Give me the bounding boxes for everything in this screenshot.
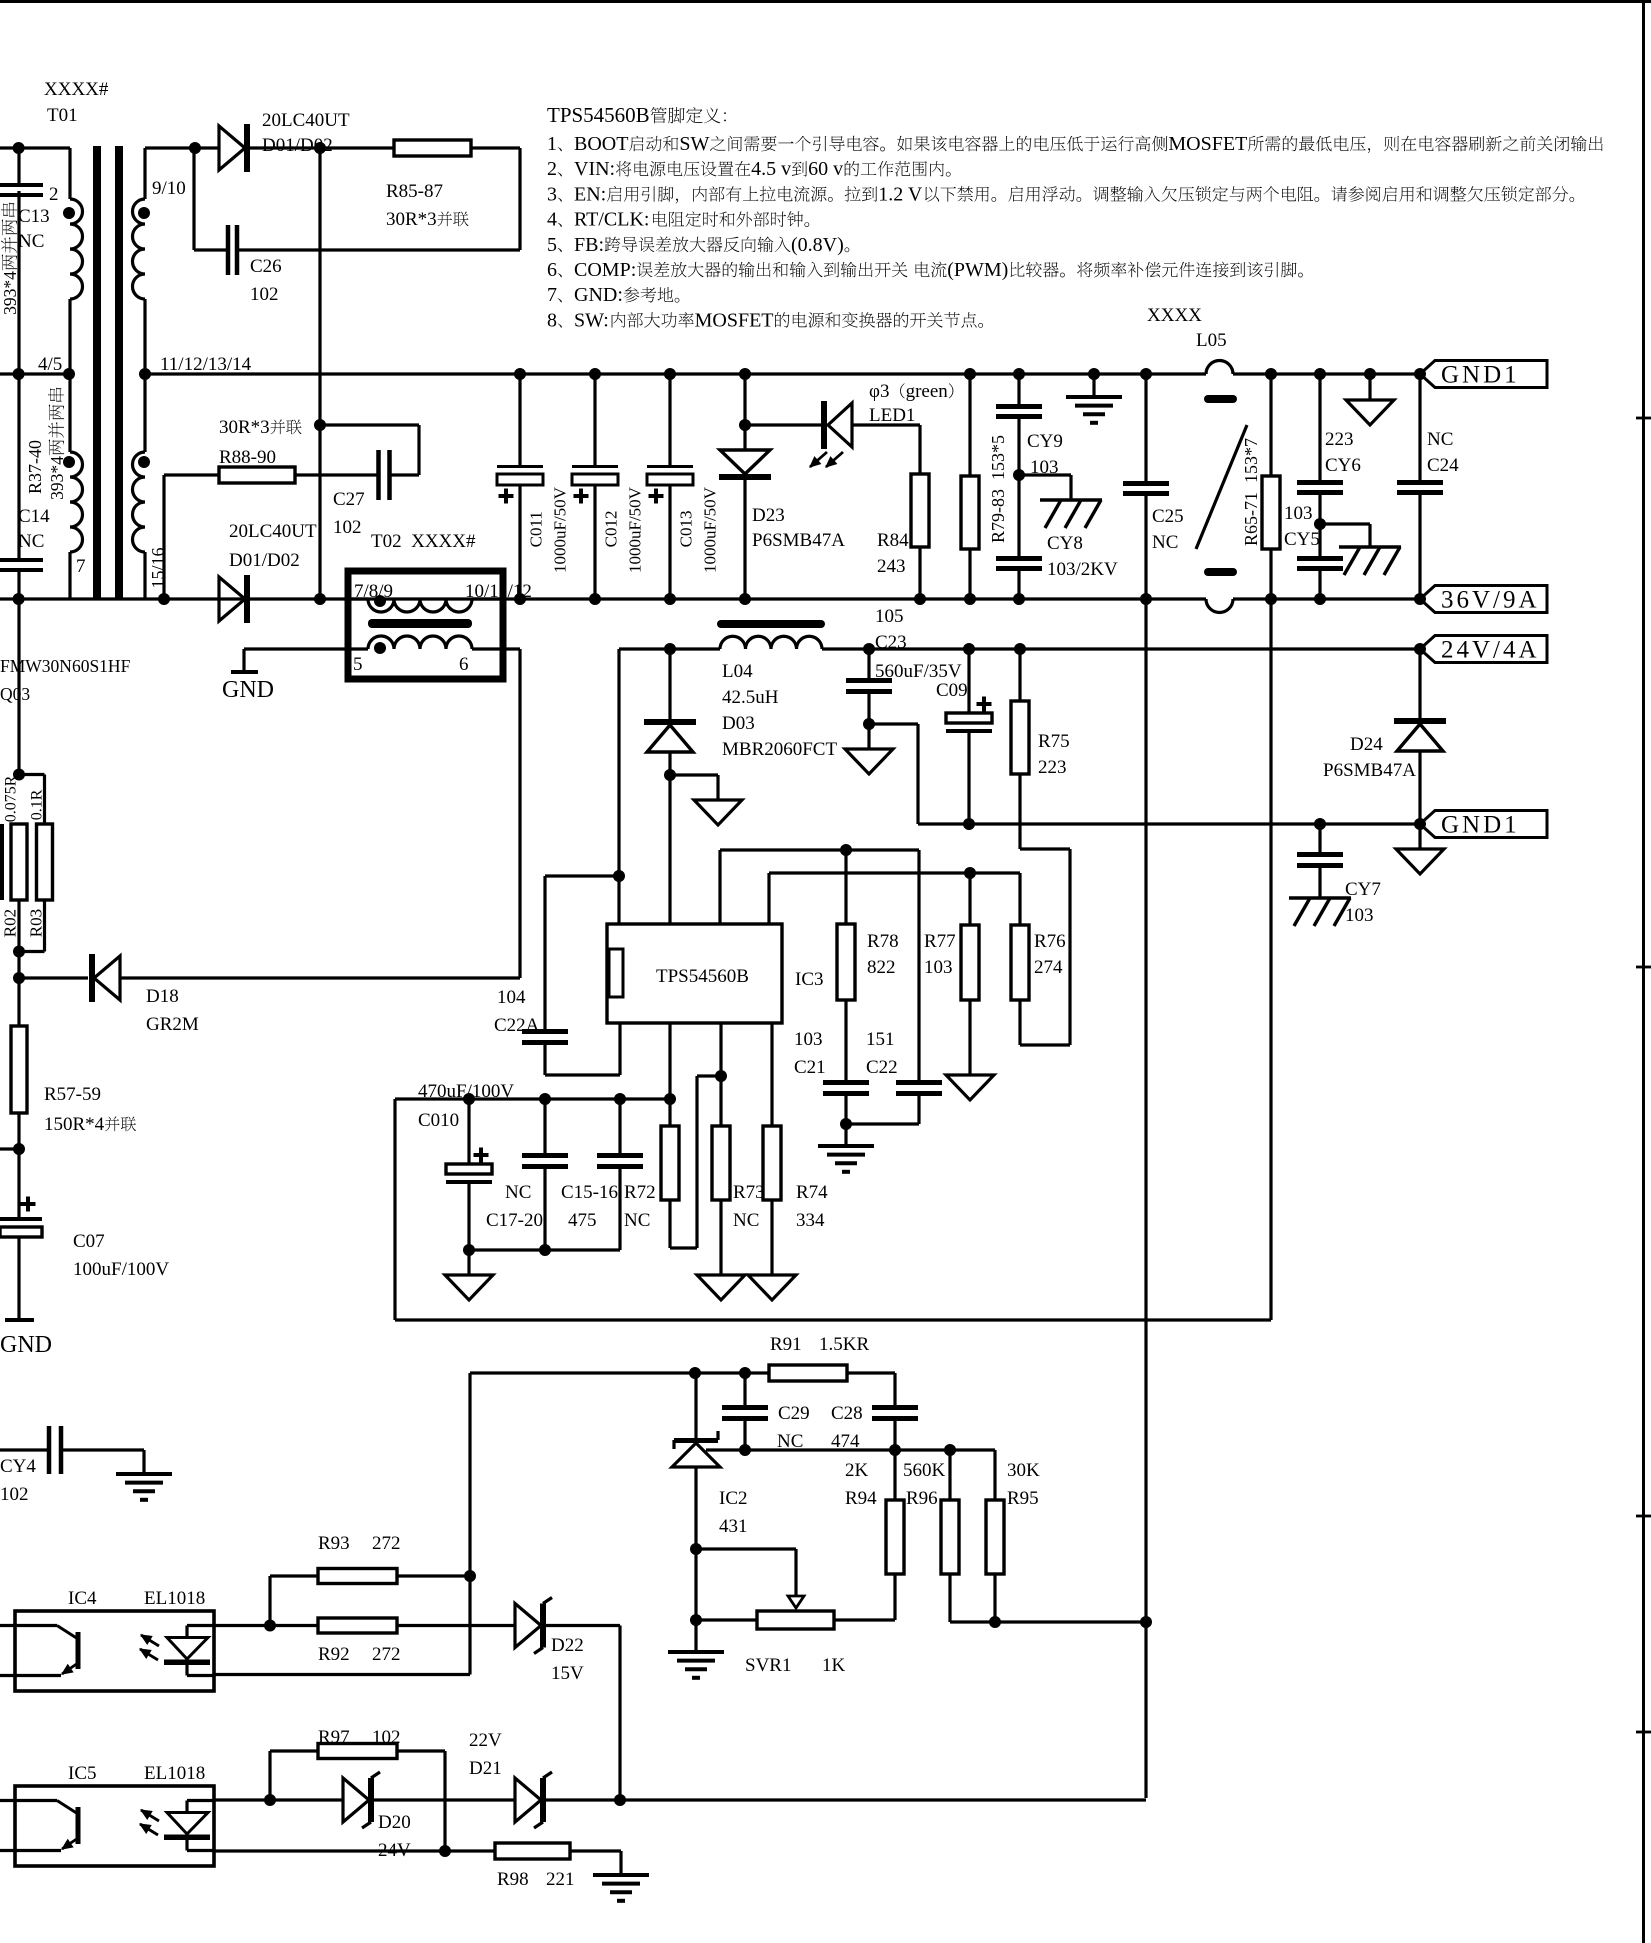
svg-text:EN:: EN: [574,183,606,205]
svg-text:150R*4: 150R*4 [44,1114,105,1135]
svg-text:L05: L05 [1196,330,1227,351]
svg-text:R65-71 153*7: R65-71 153*7 [1241,438,1261,546]
svg-text:GND: GND [0,1332,52,1358]
svg-text:D23: D23 [752,505,785,526]
svg-text:D21: D21 [469,1758,502,1779]
svg-text:D01/D02: D01/D02 [229,550,300,571]
svg-text:R97: R97 [318,1727,350,1748]
svg-text:103: 103 [1345,905,1374,926]
svg-text:100uF/100V: 100uF/100V [73,1259,169,1280]
svg-text:272: 272 [372,1533,401,1554]
svg-text:CY7: CY7 [1345,879,1381,900]
svg-text:φ3: φ3 [869,381,889,402]
svg-text:FMW30N60S1HF: FMW30N60S1HF [0,656,131,676]
svg-text:15V: 15V [551,1663,584,1684]
svg-text:(PWM): (PWM) [947,259,1008,281]
svg-text:IC4: IC4 [68,1588,97,1609]
svg-text:560uF/35V: 560uF/35V [875,661,962,682]
svg-text:NC: NC [505,1182,531,1203]
svg-text:EL1018: EL1018 [144,1763,205,1784]
svg-text:8: 8 [547,309,557,331]
svg-text:C14: C14 [18,506,50,527]
svg-text:R96: R96 [906,1488,938,1509]
svg-text:103: 103 [794,1029,823,1050]
svg-text:R84: R84 [877,530,909,551]
svg-text:IC3: IC3 [795,969,824,990]
svg-text:R57-59: R57-59 [44,1084,101,1105]
svg-text:XXXX: XXXX [1147,305,1202,326]
svg-text:D24: D24 [1350,734,1383,755]
svg-text:MOSFET: MOSFET [1168,133,1247,155]
svg-text:GND1: GND1 [1441,812,1520,839]
svg-text:SW: SW [679,133,709,155]
svg-text:22V: 22V [469,1730,502,1751]
svg-text:C28: C28 [831,1403,863,1424]
svg-text:C22A: C22A [494,1015,540,1036]
svg-text:1000uF/50V: 1000uF/50V [626,486,645,573]
svg-text:SW:: SW: [574,309,609,331]
svg-text:IC2: IC2 [719,1488,748,1509]
svg-text:1: 1 [547,133,557,155]
svg-text:60 v: 60 v [808,158,843,180]
svg-text:2K: 2K [845,1460,869,1481]
svg-text:(0.8V): (0.8V) [791,234,844,256]
svg-text:5: 5 [547,234,557,256]
svg-text:1000uF/50V: 1000uF/50V [551,486,570,573]
svg-text:MOSFET: MOSFET [695,309,774,331]
svg-text:CY8: CY8 [1047,533,1083,554]
svg-text:393*4: 393*4 [0,271,20,315]
svg-text:274: 274 [1034,957,1063,978]
svg-text:P6SMB47A: P6SMB47A [1323,760,1416,781]
svg-text:1.5KR: 1.5KR [819,1334,869,1355]
svg-text:475: 475 [568,1210,597,1231]
svg-text:36V/9A: 36V/9A [1441,587,1540,614]
svg-text:4.5 v: 4.5 v [751,158,791,180]
svg-text:GND:: GND: [574,284,623,306]
svg-text:NC: NC [733,1210,759,1231]
svg-text:C25: C25 [1152,506,1184,527]
svg-text:1.2 V: 1.2 V [878,183,923,205]
svg-text:LED1: LED1 [869,405,915,426]
svg-text:C09: C09 [936,680,968,701]
svg-text:D03: D03 [722,713,755,734]
svg-text:P6SMB47A: P6SMB47A [752,530,845,551]
svg-text:C26: C26 [250,256,282,277]
svg-text:R88-90: R88-90 [219,447,276,468]
svg-text:R75: R75 [1038,731,1070,752]
svg-text:C23: C23 [875,632,907,653]
svg-text:Q03: Q03 [0,684,30,704]
svg-text:T01: T01 [47,105,78,126]
svg-text:C24: C24 [1427,455,1459,476]
svg-text:R76: R76 [1034,931,1066,952]
svg-text:T02 XXXX#: T02 XXXX# [371,531,476,552]
svg-text:C22: C22 [866,1057,898,1078]
svg-text:560K: 560K [903,1460,946,1481]
svg-text:R79-83 153*5: R79-83 153*5 [988,435,1008,543]
svg-text:30K: 30K [1007,1460,1040,1481]
svg-text:221: 221 [546,1869,575,1890]
svg-text:R02: R02 [1,909,20,937]
svg-text:C29: C29 [778,1403,810,1424]
svg-text:R85-87: R85-87 [386,181,443,202]
svg-text:R94: R94 [845,1488,877,1509]
svg-text:334: 334 [796,1210,825,1231]
svg-text:NC: NC [1152,532,1178,553]
svg-text:20LC40UT: 20LC40UT [262,110,350,131]
svg-text:103: 103 [1030,457,1059,478]
svg-text:C013: C013 [677,511,696,548]
svg-text:C13: C13 [18,206,50,227]
svg-text:102: 102 [0,1484,29,1505]
svg-text:GR2M: GR2M [146,1014,199,1035]
svg-text:7: 7 [547,284,557,306]
svg-text:GND: GND [222,677,274,703]
svg-text:TPS54560B: TPS54560B [547,103,650,127]
svg-text:TPS54560B: TPS54560B [656,966,749,987]
svg-text:D22: D22 [551,1635,584,1656]
svg-text:XXXX#: XXXX# [44,79,109,100]
svg-text:R77: R77 [924,931,956,952]
svg-text:30R*3: 30R*3 [386,209,437,230]
svg-text:103/2KV: 103/2KV [1047,559,1118,580]
svg-text:4/5: 4/5 [38,354,62,375]
svg-text:C27: C27 [333,489,365,510]
svg-text:D20: D20 [378,1812,411,1833]
svg-text:L04: L04 [722,661,753,682]
svg-text:11/12/13/14: 11/12/13/14 [160,354,252,375]
svg-text:103: 103 [1284,503,1313,524]
svg-text:102: 102 [250,284,279,305]
svg-text:R78: R78 [867,931,899,952]
svg-text:IC5: IC5 [68,1763,97,1784]
svg-text:42.5uH: 42.5uH [722,687,779,708]
svg-text:0.1R: 0.1R [28,789,45,820]
svg-text:RT/CLK:: RT/CLK: [574,209,649,231]
svg-text:7/8/9: 7/8/9 [354,581,393,602]
svg-text:CY5: CY5 [1284,529,1320,550]
svg-text:223: 223 [1038,757,1067,778]
svg-text:C011: C011 [527,511,546,547]
svg-text:R73: R73 [733,1182,765,1203]
svg-text:NC: NC [18,231,44,252]
svg-text:SVR1: SVR1 [745,1655,791,1676]
svg-text:5: 5 [353,654,363,675]
svg-text:822: 822 [867,957,896,978]
svg-text:24V: 24V [378,1840,411,1861]
svg-text:1K: 1K [822,1655,846,1676]
svg-text:GND1: GND1 [1441,362,1520,389]
svg-text:R74: R74 [796,1182,828,1203]
svg-text:C012: C012 [602,511,621,548]
svg-text:R72: R72 [624,1182,656,1203]
svg-text:105: 105 [875,606,904,627]
svg-text:2: 2 [49,184,59,205]
svg-text:243: 243 [877,556,906,577]
svg-text:223: 223 [1325,429,1354,450]
svg-text:6: 6 [459,654,469,675]
svg-text:103: 103 [924,957,953,978]
svg-text:R91: R91 [770,1334,802,1355]
svg-text:104: 104 [497,987,526,1008]
svg-text:CY6: CY6 [1325,455,1361,476]
svg-text:3: 3 [547,183,557,205]
svg-text:C21: C21 [794,1057,826,1078]
svg-text:R03: R03 [27,909,46,937]
svg-text:EL1018: EL1018 [144,1588,205,1609]
svg-text:2: 2 [547,158,557,180]
svg-text:NC: NC [18,531,44,552]
svg-text:MBR2060FCT: MBR2060FCT [722,739,837,760]
svg-text:30R*3: 30R*3 [219,417,270,438]
svg-text:7: 7 [76,556,86,577]
svg-text:COMP:: COMP: [574,259,636,281]
svg-text:102: 102 [372,1727,401,1748]
svg-text:NC: NC [624,1210,650,1231]
svg-text:6: 6 [547,259,557,281]
svg-text:0.075R: 0.075R [2,775,19,822]
svg-text:R98: R98 [497,1869,529,1890]
svg-text:NC: NC [1427,429,1453,450]
svg-text:FB:: FB: [574,234,604,256]
svg-text:C17-20: C17-20 [486,1210,543,1231]
svg-text:R95: R95 [1007,1488,1039,1509]
svg-text:R93: R93 [318,1533,350,1554]
svg-text:green: green [906,381,949,402]
svg-text:4: 4 [547,209,557,231]
svg-text:C07: C07 [73,1231,105,1252]
svg-text:151: 151 [866,1029,895,1050]
svg-text:BOOT: BOOT [574,133,628,155]
svg-text:CY4: CY4 [0,1456,36,1477]
svg-text:393*4: 393*4 [47,456,67,500]
svg-text:24V/4A: 24V/4A [1441,637,1540,664]
svg-text:102: 102 [333,517,362,538]
svg-text:272: 272 [372,1644,401,1665]
svg-text:R92: R92 [318,1644,350,1665]
svg-text:CY9: CY9 [1027,431,1063,452]
svg-text:1000uF/50V: 1000uF/50V [701,486,720,573]
svg-text:D18: D18 [146,986,179,1007]
svg-text:C15-16: C15-16 [561,1182,618,1203]
svg-text:9/10: 9/10 [152,178,186,199]
svg-text:C010: C010 [418,1110,459,1131]
svg-text:VIN:: VIN: [574,158,615,180]
svg-text:431: 431 [719,1516,748,1537]
svg-text:R37-40: R37-40 [25,440,45,494]
svg-text:20LC40UT: 20LC40UT [229,521,317,542]
